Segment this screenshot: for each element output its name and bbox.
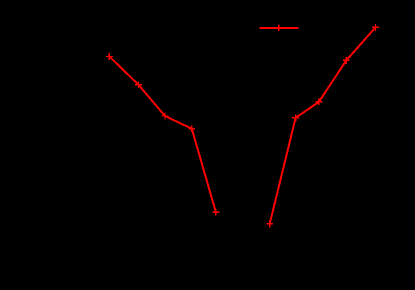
node P3 marker plus (162, 113, 169, 120)
legend sample line (259, 27, 298, 29)
node P5 marker plus (213, 209, 220, 216)
node P10 marker plus (372, 24, 379, 31)
node P1 marker plus (106, 53, 113, 60)
node P2 marker plus (135, 81, 142, 88)
node P8 marker plus (316, 98, 323, 105)
wire: curve right branch (red linespoints) (270, 27, 376, 224)
node P4 marker plus (188, 125, 195, 132)
node P9 marker plus (343, 57, 350, 64)
legend sample marker plus (275, 24, 282, 31)
node P7 marker plus (292, 115, 299, 122)
node P6 marker plus (266, 221, 273, 228)
wire: curve left branch (red linespoints) (109, 57, 215, 213)
